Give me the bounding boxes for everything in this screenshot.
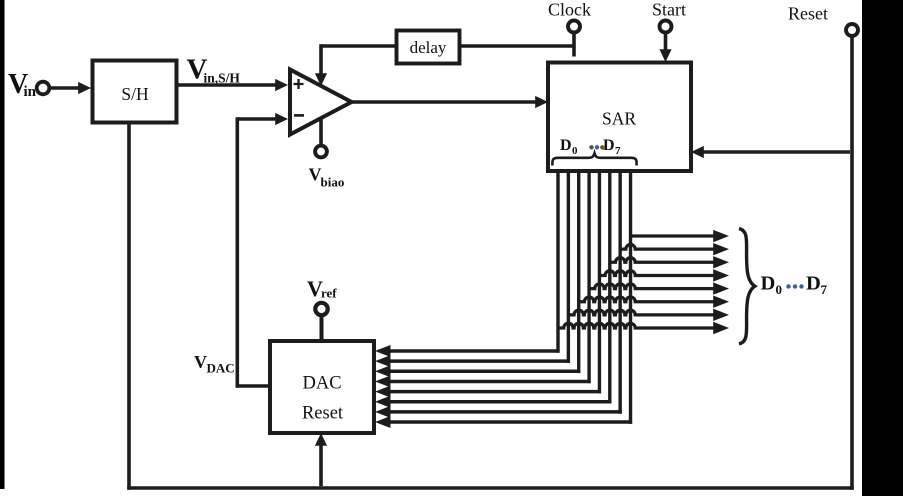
- terminal Vbiao: [315, 146, 327, 158]
- wire bus bit D2 into DAC with arrow: [375, 365, 580, 377]
- wire Reset vertical down right side: [850, 37, 854, 490]
- wire bus bit D4 branch to output with hops and arrow: [599, 269, 729, 281]
- terminal Reset: [846, 24, 858, 36]
- comparator + input pin mark: [294, 79, 304, 89]
- wire comparator output to SAR with arrow: [351, 96, 548, 108]
- terminal Start: [660, 21, 672, 33]
- op-amp comparator U1: [290, 70, 352, 135]
- block S/H (sample and hold): [93, 61, 177, 123]
- wire bus bit D3 into DAC with arrow: [375, 375, 591, 387]
- node Vref label: [307, 276, 337, 301]
- wire bus bit D5 into DAC with arrow: [375, 396, 611, 408]
- wire bus bit D4 vertical from SAR: [598, 170, 601, 394]
- wire S/H bottom to reset rail: [127, 123, 131, 490]
- block SAR (successive approximation register): [548, 63, 691, 172]
- wire bus bit D6 vertical from SAR: [618, 170, 621, 414]
- svg-text:0: 0: [572, 145, 578, 157]
- left border bar: [0, 0, 5, 489]
- node output D0 ... D7 label: [761, 273, 828, 298]
- wire Vin to S/H with arrow: [51, 82, 92, 94]
- terminal Vin: [37, 82, 50, 95]
- comparator - input pin mark: [294, 114, 304, 117]
- svg-text:V: V: [194, 352, 207, 372]
- wire Clock terminal stub: [572, 33, 576, 57]
- wire S/H output to comparator + input, net Vin,S/H: [177, 79, 289, 91]
- output bus right curly brace: [739, 229, 755, 344]
- wire delay input from Clock: [460, 44, 575, 48]
- wire bus bit D0 branch to output with hops and arrow: [558, 322, 729, 334]
- wire bus bit D2 branch to output with hops and arrow: [579, 296, 729, 308]
- svg-text:D: D: [761, 273, 776, 295]
- svg-text:Clock: Clock: [548, 0, 591, 20]
- wire delay output down into comparator with arrow: [315, 44, 396, 86]
- wire VDAC from DAC to comparator - input with arrow: [236, 113, 289, 388]
- wire comparator bias stub: [319, 119, 323, 145]
- block DAC with internal Reset: [270, 341, 374, 433]
- SAR output pins label D0 ... D7: [560, 137, 621, 157]
- svg-text:0: 0: [776, 282, 783, 297]
- wire bus bit D7 vertical from SAR: [629, 170, 632, 424]
- terminal Vref: [315, 303, 327, 315]
- wire bus bit D5 branch to output with hops and arrow: [610, 256, 729, 268]
- wire bus bit D6 branch to output with hops and arrow: [620, 243, 729, 255]
- wire bus bit D1 branch to output with hops and arrow: [568, 309, 729, 321]
- svg-text:7: 7: [615, 145, 621, 157]
- block delay: [397, 31, 460, 64]
- node Vin label: [8, 69, 37, 100]
- wire bus bit D2 vertical from SAR: [577, 170, 580, 374]
- wire Reset into SAR right side with arrow: [691, 146, 850, 158]
- wire bus bit D1 into DAC with arrow: [375, 355, 570, 367]
- wire bus bit D0 vertical from SAR: [556, 170, 559, 353]
- svg-text:DAC: DAC: [302, 374, 341, 394]
- svg-text:biao: biao: [321, 175, 345, 190]
- svg-text:Reset: Reset: [788, 4, 828, 24]
- svg-text:Reset: Reset: [302, 404, 344, 424]
- wire reset rail up into DAC with arrow: [315, 433, 327, 486]
- svg-text:SAR: SAR: [602, 109, 636, 129]
- wire bus bit D1 vertical from SAR: [567, 170, 570, 363]
- wire bus bit D5 vertical from SAR: [608, 170, 611, 404]
- wire bus bit D3 branch to output with hops and arrow: [589, 282, 729, 294]
- svg-text:D: D: [806, 273, 821, 295]
- svg-text:D: D: [560, 137, 572, 154]
- svg-text:delay: delay: [410, 38, 447, 57]
- SAR output bus over-brace: [552, 153, 636, 165]
- node VDAC label: [194, 352, 235, 376]
- right border bar: [862, 0, 903, 496]
- svg-text:7: 7: [821, 282, 828, 297]
- terminal Clock: [568, 21, 580, 33]
- wire bus bit D4 into DAC with arrow: [375, 386, 601, 398]
- node Vbiao label: [309, 165, 345, 190]
- wire bus bit D3 vertical from SAR: [587, 170, 590, 384]
- wire bottom reset rail: [127, 486, 854, 490]
- svg-text:ref: ref: [321, 286, 337, 301]
- node Vin,S/H label: [187, 54, 241, 86]
- svg-text:Start: Start: [652, 0, 686, 20]
- wire bus bit D6 into DAC with arrow: [375, 406, 622, 418]
- wire bus bit D7 into DAC with arrow: [375, 416, 632, 428]
- wire bus bit D7 branch to output with hops and arrow: [631, 230, 729, 242]
- svg-text:DAC: DAC: [207, 361, 235, 376]
- wire Start into SAR with arrow: [659, 33, 671, 62]
- wire bus bit D0 into DAC with arrow: [375, 345, 560, 357]
- svg-text:in: in: [24, 84, 37, 100]
- svg-text:D: D: [603, 137, 615, 154]
- svg-text:in,S/H: in,S/H: [204, 71, 241, 86]
- wire Vref into DAC top: [320, 316, 324, 342]
- svg-text:S/H: S/H: [121, 84, 149, 104]
